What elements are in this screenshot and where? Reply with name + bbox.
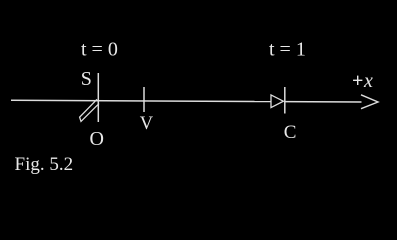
hatch rod at origin — [80, 99, 99, 121]
svg-text:O: O — [90, 128, 104, 150]
svg-text:t = 0: t = 0 — [81, 39, 118, 61]
svg-text:V: V — [140, 114, 154, 134]
svg-text:t = 1: t = 1 — [269, 39, 306, 61]
svg-text:C: C — [284, 122, 297, 143]
arrowhead axis end open chevron — [361, 95, 378, 109]
arrowhead open triangle at C — [271, 95, 283, 108]
svg-text:+x: +x — [352, 70, 373, 92]
node O vertical line at origin — [97, 73, 99, 122]
tick C position mark — [284, 87, 286, 114]
tick V position mark — [143, 87, 145, 112]
svg-text:Fig. 5.2: Fig. 5.2 — [15, 154, 74, 175]
svg-text:S: S — [81, 68, 92, 90]
wire x-axis right segment — [285, 101, 362, 103]
wire x-axis left segment — [11, 100, 271, 101]
